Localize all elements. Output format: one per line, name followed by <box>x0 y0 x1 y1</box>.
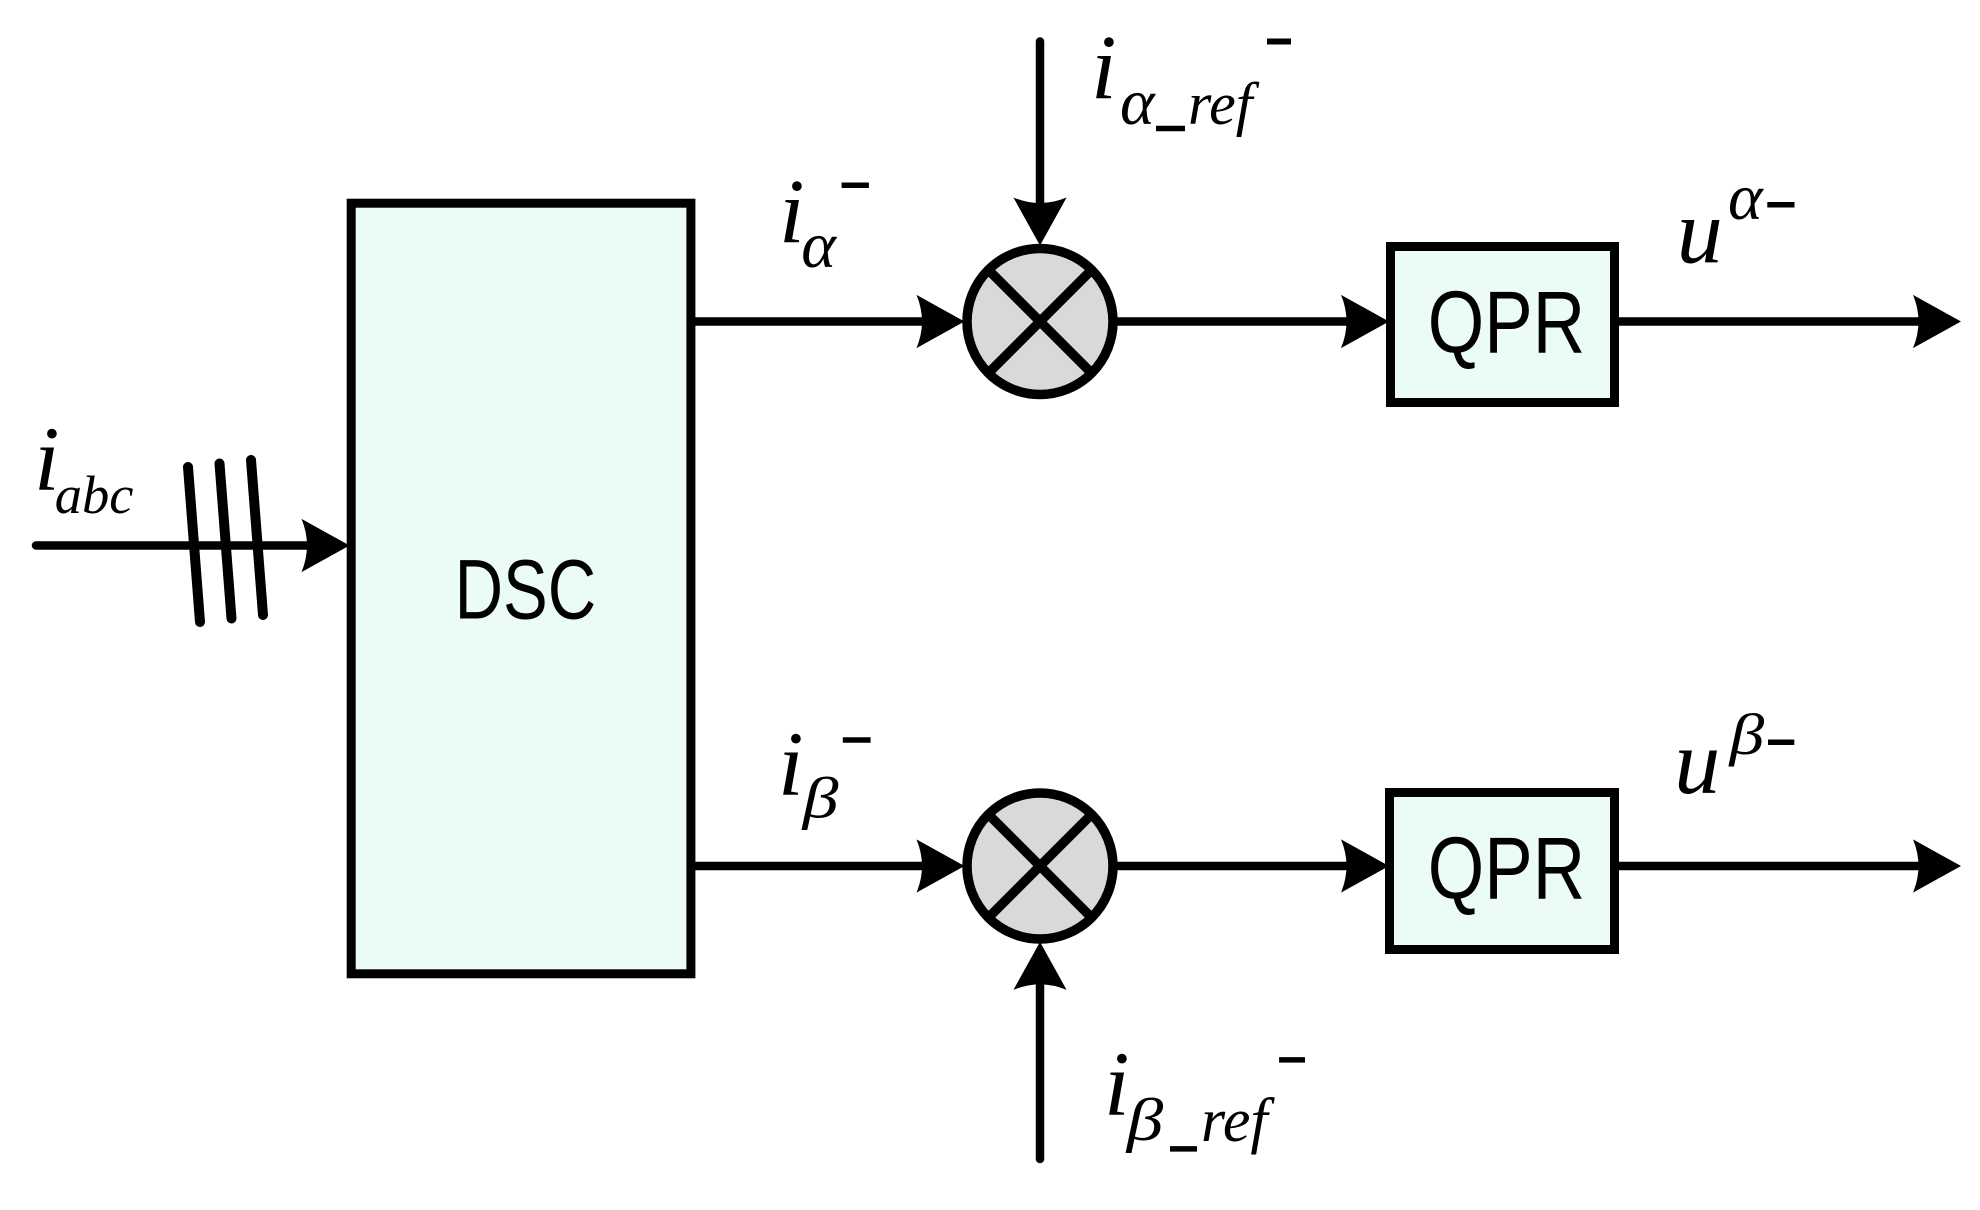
svg-text:abc: abc <box>55 464 134 525</box>
svg-text:α: α <box>1728 161 1764 234</box>
svg-text:β: β <box>800 767 839 831</box>
svg-text:ref: ref <box>1188 71 1260 137</box>
svg-text:DSC: DSC <box>455 543 597 637</box>
svg-text:β: β <box>1125 1087 1164 1153</box>
svg-text:ref: ref <box>1201 1087 1275 1155</box>
svg-text:i: i <box>778 713 804 815</box>
svg-text:QPR: QPR <box>1428 273 1585 372</box>
svg-text:u: u <box>1674 711 1720 813</box>
svg-text:i: i <box>1091 17 1117 119</box>
svg-text:QPR: QPR <box>1428 819 1585 918</box>
svg-text:u: u <box>1677 181 1723 283</box>
svg-text:β: β <box>1727 702 1764 766</box>
svg-text:α: α <box>1120 66 1156 139</box>
svg-text:α: α <box>801 209 837 282</box>
